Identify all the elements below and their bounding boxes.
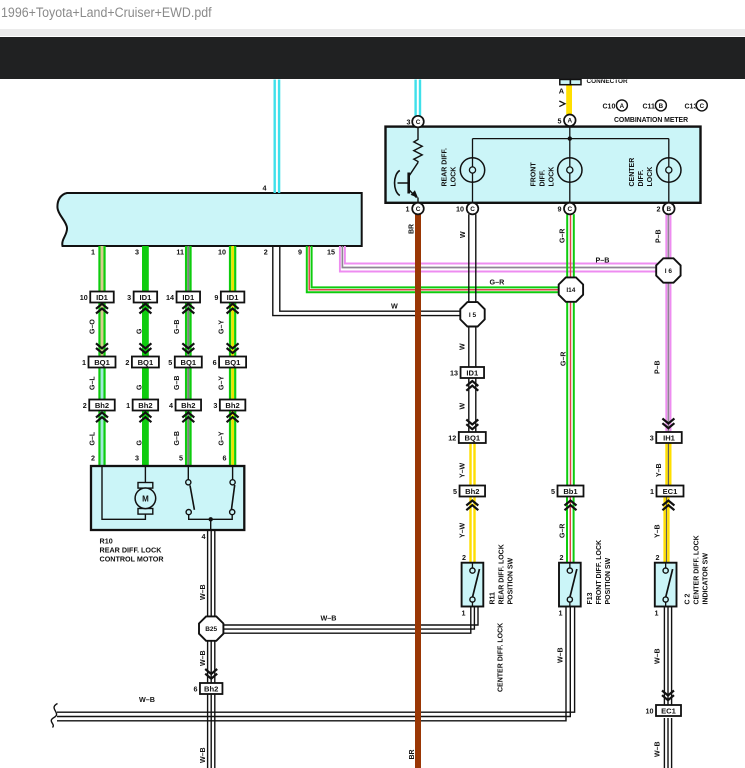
svg-text:ID1: ID1 [182, 293, 195, 302]
svg-text:CENTER: CENTER [629, 158, 636, 187]
svg-text:1: 1 [406, 205, 410, 214]
junction connector I14 [559, 277, 583, 301]
svg-text:3: 3 [135, 248, 139, 257]
svg-text:1: 1 [91, 248, 95, 257]
svg-text:W–B: W–B [558, 647, 565, 663]
junction box ID1 column 2 [127, 292, 157, 303]
ground point B25 [199, 616, 223, 640]
chevron up below 13 ID1 [466, 381, 478, 391]
combination meter box U-COMB [386, 127, 701, 203]
svg-text:15: 15 [327, 248, 335, 257]
wire BR (thick brown) from meter pin 1 to page bottom [415, 214, 421, 768]
svg-text:Bh2: Bh2 [138, 401, 152, 410]
junction box 5 Bb1 [551, 486, 584, 497]
meter pin 9 connector C [558, 203, 576, 215]
svg-text:EC1: EC1 [661, 707, 677, 716]
junction box 6 Bh2 [193, 683, 222, 694]
svg-text:6: 6 [223, 454, 227, 463]
junction box ID1 column 4 [214, 292, 244, 303]
resistor in combination meter [414, 128, 422, 163]
junction box Bh2 column 4 [213, 400, 245, 411]
wire W-B below EC1 to page bottom [663, 718, 665, 768]
svg-text:G–R: G–R [560, 229, 567, 243]
lamp center diff lock indicator [657, 139, 681, 203]
svg-text:M: M [142, 494, 149, 503]
svg-text:G–L: G–L [90, 431, 97, 445]
wire W from I5 to ID1/BQ1 [468, 326, 470, 432]
chevron up below Bh2 col 4 [227, 413, 239, 423]
svg-text:G: G [137, 384, 144, 390]
switch 2 in R10 [232, 466, 234, 480]
svg-text:W–B: W–B [200, 650, 207, 666]
svg-text:R11: R11 [490, 592, 497, 605]
svg-text:C 2: C 2 [685, 594, 692, 605]
svg-text:W–B: W–B [655, 741, 662, 757]
meter pin 3 connector C [407, 116, 424, 128]
svg-text:1: 1 [655, 609, 659, 618]
svg-text:BQ1: BQ1 [138, 358, 154, 367]
cut-off junction connector at top [560, 80, 581, 85]
junction box 12 BQ1 [448, 432, 486, 443]
svg-text:9: 9 [558, 205, 562, 214]
svg-text:C: C [470, 206, 475, 213]
svg-text:FRONT: FRONT [531, 162, 538, 187]
svg-text:10: 10 [218, 248, 226, 257]
svg-text:BQ1: BQ1 [180, 358, 196, 367]
wire W from block pin 2 to I5 (L-bend) [273, 246, 462, 316]
svg-text:BQ1: BQ1 [94, 358, 110, 367]
svg-text:W: W [460, 231, 467, 238]
svg-text:10: 10 [646, 707, 654, 716]
svg-text:B: B [666, 206, 671, 213]
svg-text:P–B: P–B [656, 229, 663, 243]
svg-text:2: 2 [560, 553, 564, 562]
bus junction dot [568, 136, 572, 140]
wire G-B column C [185, 246, 187, 466]
chevron up below Bh2 col 3 [182, 413, 194, 423]
chevron up below ID1 col 1 [96, 304, 108, 314]
svg-text:C: C [416, 119, 421, 126]
motor M circle [135, 488, 156, 509]
svg-text:4: 4 [263, 184, 267, 193]
transistor in combination meter [407, 173, 410, 194]
svg-text:B: B [659, 103, 664, 110]
meter pin 5 stub to bus [569, 124, 571, 139]
svg-text:ID1: ID1 [466, 369, 479, 378]
svg-text:C: C [416, 206, 421, 213]
lamp rear diff lock indicator [460, 139, 484, 203]
svg-text:3: 3 [213, 401, 217, 410]
svg-text:I14: I14 [566, 287, 575, 294]
svg-text:13: 13 [450, 369, 458, 378]
chevron up below 1 EC1 [662, 501, 674, 511]
svg-text:Y–B: Y–B [656, 463, 663, 477]
svg-text:LOCK: LOCK [451, 167, 458, 187]
svg-text:5: 5 [179, 454, 183, 463]
chevron down above BQ1 col 2 [139, 343, 151, 353]
svg-text:G: G [137, 328, 144, 334]
wire P-B from block pin 15 to I6 (L-bend) [340, 246, 657, 272]
wire G-O column A upper [101, 246, 104, 361]
svg-text:P–B: P–B [596, 256, 610, 265]
chevron down above B25 Bh2 [205, 669, 217, 679]
svg-text:G–R: G–R [490, 278, 506, 287]
svg-text:POSITION SW: POSITION SW [508, 557, 515, 604]
svg-text:Y–W: Y–W [460, 462, 467, 478]
relay box R10 outline [91, 466, 244, 530]
svg-text:10: 10 [80, 293, 88, 302]
svg-text:Bh2: Bh2 [204, 685, 218, 694]
internal wire pin2 to motor [102, 466, 145, 519]
junction connector I 5 [460, 302, 484, 326]
chevron up below ID1 col 2 [139, 304, 151, 314]
wire W-B from F13 pin 1 to left edge (L-bend) [57, 607, 566, 721]
pdf viewer title [1, 5, 212, 20]
junction box BQ1 column 4 [213, 357, 247, 368]
arrow marker on wire [559, 101, 565, 107]
svg-text:G–R: G–R [560, 524, 567, 538]
svg-text:G–Y: G–Y [219, 376, 226, 390]
svg-text:W–B: W–B [139, 695, 155, 704]
switch F13 front diff lock position sw [559, 563, 581, 607]
svg-text:BQ1: BQ1 [464, 434, 480, 443]
svg-text:FRONT DIFF. LOCK: FRONT DIFF. LOCK [596, 540, 603, 605]
svg-text:1: 1 [82, 358, 86, 367]
chevron up below ID1 col 4 [227, 304, 239, 314]
meter pin 10 connector C [456, 203, 478, 215]
junction box 5 Bh2 [453, 486, 485, 497]
wire G-R from I14 to Bb1 [566, 302, 568, 486]
wire G-Y column D upper [231, 246, 234, 361]
svg-text:2: 2 [83, 401, 87, 410]
dark pdf toolbar [0, 37, 745, 79]
wire G-R from meter pin 9 to I14 [566, 214, 568, 278]
junction box BQ1 column 2 [125, 357, 159, 368]
junction box 1 EC1 [650, 486, 684, 497]
svg-text:1: 1 [559, 609, 563, 618]
svg-text:ID1: ID1 [96, 293, 109, 302]
svg-text:4: 4 [169, 401, 173, 410]
svg-text:Bh2: Bh2 [465, 487, 479, 496]
junction box BQ1 column 3 [168, 357, 202, 368]
wire W-B from B25 to Bh2 [207, 641, 209, 683]
svg-text:G–R: G–R [561, 352, 568, 366]
chevron down above BQ1 col 3 [182, 343, 194, 353]
junction box ID1 column 1 [80, 292, 114, 303]
svg-text:G–Y: G–Y [219, 320, 226, 334]
svg-text:Bh2: Bh2 [95, 401, 109, 410]
wire W-B from C2 pin 1 to EC1 [663, 607, 665, 706]
svg-text:I 5: I 5 [469, 312, 477, 319]
svg-text:CONTROL MOTOR: CONTROL MOTOR [100, 555, 165, 564]
svg-text:G–B: G–B [174, 431, 181, 445]
wire Y-B from IH1 to EC1 [665, 443, 668, 486]
svg-text:REAR DIFF.: REAR DIFF. [442, 148, 449, 187]
svg-text:1: 1 [126, 401, 130, 410]
svg-text:5: 5 [551, 487, 555, 496]
junction box 10 EC1 [646, 705, 682, 716]
svg-text:C: C [700, 103, 705, 110]
chevron up below ID1 col 3 [182, 304, 194, 314]
motor M brush bars [138, 483, 153, 489]
svg-text:Bb1: Bb1 [563, 487, 578, 496]
wire P-B from I6 to IH1 [665, 283, 667, 433]
wire Y-W from BQ1 to Bh2 [469, 443, 471, 486]
svg-text:Y–W: Y–W [460, 522, 467, 538]
svg-text:B25: B25 [205, 626, 217, 633]
switch R11 rear diff lock position sw [462, 563, 484, 607]
clipped CONNECTOR text [587, 78, 628, 85]
svg-text:G–L: G–L [90, 376, 97, 390]
svg-text:LOCK: LOCK [549, 167, 556, 187]
switch common wire to pin 4 [189, 515, 233, 520]
svg-text:IH1: IH1 [663, 434, 676, 443]
svg-text:REAR DIFF. LOCK: REAR DIFF. LOCK [499, 544, 506, 604]
svg-text:G: G [137, 440, 144, 446]
junction box Bh2 column 2 [126, 400, 158, 411]
left junction block (cut-away box) [57, 193, 361, 246]
junction box 3 IH1 [650, 432, 682, 443]
junction box ID1 column 3 [166, 292, 200, 303]
svg-text:5: 5 [558, 116, 562, 125]
svg-text:DIFF.: DIFF. [540, 170, 547, 187]
svg-text:I 6: I 6 [665, 268, 673, 275]
wire break squiggle at left end [51, 704, 57, 728]
svg-text:9: 9 [214, 293, 218, 302]
meter pin 5 connector A [558, 115, 576, 127]
wire Y (yellow) from cut connector to meter pin 5 [566, 85, 572, 115]
svg-text:2: 2 [657, 205, 661, 214]
svg-text:6: 6 [193, 685, 197, 694]
junction box Bh2 column 1 [83, 400, 115, 411]
chevron down above BQ1 col 4 [227, 343, 239, 353]
svg-text:6: 6 [213, 358, 217, 367]
wire G-R from block pin 9 to I14 (L-bend) [307, 246, 560, 292]
svg-text:CENTER DIFF. LOCK: CENTER DIFF. LOCK [694, 535, 701, 604]
svg-text:INDICATOR SW: INDICATOR SW [703, 553, 710, 605]
svg-text:ID1: ID1 [227, 293, 240, 302]
chevron up below 5 Bb1 [565, 501, 577, 511]
svg-text:3: 3 [407, 118, 411, 127]
junction box Bh2 column 3 [169, 400, 201, 411]
svg-text:W: W [391, 302, 398, 311]
svg-text:5: 5 [168, 358, 172, 367]
switch C2 center diff lock indicator sw [655, 563, 677, 607]
wire G-Y column D lower [231, 361, 234, 466]
svg-text:2: 2 [125, 358, 129, 367]
svg-text:G–Y: G–Y [219, 431, 226, 445]
svg-text:CONNECTOR: CONNECTOR [587, 78, 628, 85]
svg-text:2: 2 [656, 553, 660, 562]
svg-text:Y–B: Y–B [655, 524, 662, 538]
svg-text:W: W [460, 403, 467, 410]
wire G column B [142, 246, 149, 466]
wire L (cyan) from toolbar to block pin 4 [274, 80, 276, 194]
svg-text:14: 14 [166, 293, 174, 302]
chevron up below Bh2 col 1 [96, 413, 108, 423]
switch 1 in R10 [187, 466, 189, 480]
chevron up below Bh2 col 2 [139, 413, 151, 423]
svg-text:F13: F13 [587, 592, 594, 604]
wire Y-B from EC1 to C2 [663, 497, 666, 563]
svg-text:12: 12 [448, 434, 456, 443]
svg-text:A: A [620, 103, 625, 110]
svg-text:G–B: G–B [174, 320, 181, 334]
svg-text:R10: R10 [100, 537, 113, 546]
chevron down above BQ1 col 1 [96, 343, 108, 353]
chevron down above 3 IH1 [662, 419, 674, 429]
svg-text:2: 2 [91, 454, 95, 463]
svg-text:1: 1 [650, 487, 654, 496]
svg-text:COMBINATION METER: COMBINATION METER [614, 117, 688, 124]
svg-text:POSITION SW: POSITION SW [605, 557, 612, 604]
wire W from meter pin 10 to I5 [468, 214, 470, 302]
svg-text:3: 3 [127, 293, 131, 302]
svg-text:3: 3 [650, 434, 654, 443]
wire W-B below Bh2 to page bottom [207, 694, 209, 768]
svg-text:G–B: G–B [174, 376, 181, 390]
svg-text:LOCK: LOCK [647, 167, 654, 187]
svg-text:G–O: G–O [90, 319, 97, 334]
svg-text:Bh2: Bh2 [225, 401, 239, 410]
svg-text:11: 11 [176, 248, 184, 257]
svg-text:W–B: W–B [200, 584, 207, 600]
junction connector I 6 [656, 258, 680, 282]
svg-text:P–B: P–B [655, 360, 662, 374]
junction box 13 ID1 [450, 367, 484, 378]
chevron down above 10 EC1 [662, 691, 674, 701]
meter pin 1 connector C [406, 203, 424, 215]
chevron down above 12 BQ1 [466, 420, 478, 430]
svg-text:A: A [567, 118, 572, 125]
svg-text:W–B: W–B [200, 747, 207, 763]
motor M stub from pin 3 [144, 466, 146, 483]
svg-text:Bh2: Bh2 [181, 401, 195, 410]
svg-text:W–B: W–B [655, 648, 662, 664]
light gray strip [0, 29, 745, 36]
svg-text:BR: BR [409, 749, 416, 759]
wire G-R from Bb1 to F13 [566, 497, 568, 563]
svg-text:BQ1: BQ1 [225, 358, 241, 367]
svg-text:10: 10 [456, 205, 464, 214]
svg-text:9: 9 [298, 248, 302, 257]
svg-text:4: 4 [202, 532, 206, 541]
wire W-B from R11 pin 1 to B25 (L-bend) [223, 607, 471, 634]
lamp front diff lock indicator [558, 139, 582, 203]
wire L (cyan) from toolbar to meter pin 3 [414, 80, 416, 117]
svg-text:ID1: ID1 [139, 293, 152, 302]
svg-text:2: 2 [264, 248, 268, 257]
svg-text:W: W [460, 343, 467, 350]
svg-text:BR: BR [409, 224, 416, 234]
chevron up below 5 Bh2 [466, 501, 478, 511]
svg-text:5: 5 [453, 487, 457, 496]
svg-text:CENTER DIFF. LOCK: CENTER DIFF. LOCK [498, 623, 505, 692]
svg-text:3: 3 [135, 454, 139, 463]
wire W-B from R10 pin 4 to B25 [207, 530, 209, 617]
svg-text:C11: C11 [643, 103, 656, 110]
svg-text:REAR DIFF. LOCK: REAR DIFF. LOCK [100, 546, 163, 555]
svg-text:1: 1 [462, 609, 466, 618]
wire Y-W from Bh2 to R11 [469, 497, 471, 563]
svg-text:C10: C10 [603, 103, 616, 110]
svg-text:DIFF.: DIFF. [638, 170, 645, 187]
wire G-L column A lower [101, 361, 104, 466]
svg-text:C13: C13 [685, 103, 698, 110]
meter pin 2 connector B [657, 203, 675, 215]
meter internal bus [473, 138, 669, 140]
svg-text:2: 2 [462, 553, 466, 562]
svg-text:W–B: W–B [321, 614, 337, 623]
svg-text:A: A [559, 87, 565, 96]
svg-text:EC1: EC1 [663, 487, 679, 496]
junction box BQ1 column 1 [82, 357, 116, 368]
svg-text:C: C [567, 206, 572, 213]
wire P-B from meter pin 2 to I6 [665, 214, 667, 258]
